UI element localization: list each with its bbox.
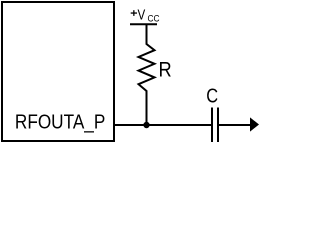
capacitor C right plate bbox=[217, 108, 219, 143]
IC block outline bbox=[2, 2, 114, 141]
wire Vcc bar to resistor, resistor R zigzag, wire to node bbox=[139, 25, 155, 125]
svg-text:R: R bbox=[159, 59, 172, 82]
+Vcc rail bar bbox=[130, 23, 157, 25]
svg-text:V: V bbox=[138, 6, 146, 23]
svg-text:C: C bbox=[206, 84, 218, 107]
node junction dot bbox=[143, 122, 149, 128]
svg-text:C: C bbox=[154, 13, 161, 24]
svg-text:RFOUTA_P: RFOUTA_P bbox=[15, 110, 105, 134]
capacitor C left plate bbox=[211, 108, 213, 143]
output wire after capacitor bbox=[218, 124, 252, 126]
+Vcc label bbox=[131, 6, 160, 24]
wire from RFOUTA_P pin to capacitor bbox=[114, 124, 212, 126]
output arrowhead bbox=[250, 117, 259, 131]
